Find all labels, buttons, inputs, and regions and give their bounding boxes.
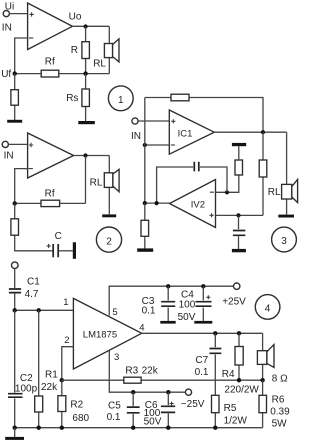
- svg-text:2: 2: [106, 236, 112, 247]
- resistor Rs: [82, 89, 90, 107]
- wire R4 branch: [238, 333, 240, 380]
- svg-text:R: R: [71, 45, 78, 56]
- wire input to op-amp: [9, 13, 27, 15]
- wire output to divider resistor: [262, 132, 264, 215]
- node R4 junction: [237, 331, 241, 335]
- resistor R4: [235, 347, 243, 366]
- svg-text:RL: RL: [93, 59, 106, 70]
- speaker RL: [104, 39, 119, 62]
- svg-text:4: 4: [265, 304, 271, 315]
- wire output: [74, 155, 110, 157]
- svg-text:100p: 100p: [15, 383, 38, 394]
- node C5 junction: [131, 390, 135, 394]
- wire inverting input: [145, 144, 170, 146]
- svg-text:IN: IN: [2, 23, 12, 34]
- node C4 junction: [201, 284, 205, 288]
- svg-text:4: 4: [139, 323, 144, 334]
- node C7 junction: [213, 331, 217, 335]
- ground (lower-left): [137, 248, 153, 251]
- op-amp A1: [28, 3, 73, 50]
- node IV2 inverting junction: [225, 190, 229, 194]
- svg-text:IN: IN: [131, 131, 141, 142]
- ground (main): [5, 437, 24, 440]
- node inverting junction: [143, 143, 147, 147]
- wire Uf feedback line: [15, 73, 110, 75]
- node Uf junction: [13, 71, 17, 75]
- svg-text:R1: R1: [45, 370, 58, 381]
- svg-text:R6: R6: [272, 395, 285, 406]
- terminal -25V: [185, 389, 191, 395]
- node rail-C6 junction: [166, 426, 170, 430]
- wire C7-R5 branch: [214, 333, 216, 395]
- node rail-C2 junction: [13, 426, 17, 430]
- svg-text:5W: 5W: [272, 419, 288, 430]
- wire R branch: [85, 27, 87, 74]
- svg-text:0.1: 0.1: [195, 367, 209, 378]
- node C2 junction: [13, 308, 17, 312]
- svg-text:50V: 50V: [178, 312, 196, 323]
- wire inverting input: [15, 169, 28, 204]
- resistor R5: [212, 395, 220, 412]
- ground (under C4): [194, 321, 212, 324]
- terminal Ui input: [3, 11, 9, 17]
- terminal IN input: [2, 141, 8, 147]
- svg-text:R3: R3: [125, 366, 138, 377]
- svg-text:R5: R5: [224, 403, 237, 414]
- circuit number 2: [96, 227, 121, 252]
- svg-text:IC1: IC1: [178, 129, 193, 140]
- wire ground stub: [14, 428, 16, 437]
- resistor (output divider): [259, 160, 267, 177]
- ground (under C3): [160, 321, 175, 324]
- resistor R: [82, 42, 90, 59]
- terminal +25V: [234, 283, 240, 289]
- ground (under speaker): [102, 214, 116, 217]
- svg-text:100: 100: [179, 300, 196, 311]
- wire IV2 output to left vertical: [145, 202, 170, 204]
- resistor (top feedback): [171, 94, 189, 101]
- op-amp IC1: [169, 110, 214, 154]
- node R-Rs junction: [83, 71, 87, 75]
- wire resistor to ground bar: [238, 146, 240, 160]
- wire to lower-left resistor: [144, 203, 146, 248]
- node output junction: [83, 153, 87, 157]
- node inverting junction: [13, 201, 17, 205]
- svg-text:IV2: IV2: [191, 200, 205, 211]
- svg-text:−25V: −25V: [181, 399, 205, 410]
- svg-text:C: C: [55, 231, 62, 242]
- svg-text:1/2W: 1/2W: [224, 415, 248, 426]
- speaker RL: [104, 169, 119, 191]
- wire input to IC1: [138, 120, 169, 122]
- resistor R2: [58, 396, 66, 412]
- svg-text:C1: C1: [27, 276, 40, 287]
- wire input to op-amp: [8, 143, 27, 145]
- op-amp U1 LM1875: [73, 298, 141, 369]
- node R1 junction: [37, 308, 41, 312]
- svg-text:8 Ω: 8 Ω: [272, 374, 288, 385]
- wire input node line: [15, 309, 74, 311]
- svg-text:2: 2: [64, 335, 69, 346]
- capacitor C7: [208, 347, 222, 354]
- svg-text:4.7: 4.7: [25, 289, 39, 300]
- svg-text:RL: RL: [90, 178, 103, 189]
- svg-text:5: 5: [112, 307, 117, 318]
- svg-text:0.39: 0.39: [270, 407, 290, 418]
- node speaker-R6 junction: [260, 378, 264, 382]
- wire output: [72, 25, 109, 27]
- op-amp A2: [28, 133, 74, 178]
- svg-text:LM1875: LM1875: [83, 329, 117, 340]
- svg-text:3: 3: [114, 352, 119, 363]
- circuit number 1: [108, 86, 133, 111]
- node pin2-R2-R3 junction: [60, 378, 64, 382]
- resistor R3: [124, 377, 141, 383]
- capacitor C5: [126, 406, 141, 414]
- wire feedback line R3: [62, 379, 263, 381]
- capacitor C4 (electrolytic): [195, 295, 213, 307]
- svg-text:+25V: +25V: [222, 297, 246, 308]
- ground (above resistor): [232, 143, 246, 146]
- node R4 bottom junction: [237, 378, 241, 382]
- node C6 junction: [166, 390, 170, 394]
- wire C3 branch: [167, 286, 169, 321]
- resistor Rf: [41, 70, 59, 77]
- node Uo junction: [84, 24, 88, 28]
- wire C4 branch: [202, 286, 204, 321]
- svg-text:R4: R4: [222, 369, 235, 380]
- svg-text:Rs: Rs: [66, 93, 78, 104]
- resistor (lower-left to ground): [141, 220, 149, 236]
- svg-text:Uf: Uf: [1, 69, 11, 80]
- ground (under capacitor): [232, 249, 246, 252]
- wire input to C1: [14, 269, 16, 311]
- wire lower resistor branch: [15, 203, 54, 250]
- svg-text:0.1: 0.1: [142, 305, 156, 316]
- svg-text:0.1: 0.1: [107, 412, 121, 423]
- wire IV2 inverting input: [216, 175, 239, 192]
- capacitor C2: [7, 393, 23, 399]
- capacitor (feedback): [193, 162, 200, 172]
- wire inverting input: [15, 38, 28, 74]
- terminal input: [12, 262, 19, 269]
- resistor R1: [35, 396, 43, 412]
- node rail-R2 junction: [60, 426, 64, 430]
- wire C2 branch: [14, 310, 16, 427]
- svg-text:IN: IN: [4, 151, 14, 162]
- svg-text:680: 680: [72, 413, 89, 424]
- svg-text:C5: C5: [108, 401, 121, 412]
- resistor (IV2 inverting to ground): [235, 160, 243, 175]
- wire IC1 output: [214, 131, 286, 133]
- capacitor (IV2 noninverting to ground): [232, 229, 245, 236]
- wire pin 3 to -rail: [109, 351, 185, 393]
- ground (right of C, vertical bar): [73, 242, 76, 258]
- capacitor C3: [160, 300, 176, 307]
- node output junction: [261, 130, 265, 134]
- wire speaker branch: [108, 156, 110, 215]
- svg-text:22k: 22k: [41, 382, 58, 393]
- wire capacitor to ground: [58, 250, 73, 252]
- ground (under speaker): [278, 215, 294, 218]
- circuit number 4: [255, 295, 280, 320]
- svg-text:1: 1: [63, 297, 68, 308]
- wire R2 branch: [61, 380, 63, 428]
- wire bottom ground rail: [15, 427, 263, 429]
- svg-text:Uo: Uo: [69, 12, 82, 23]
- terminal IN input: [132, 118, 138, 124]
- wire output pin 4: [142, 332, 263, 334]
- svg-text:220/2W: 220/2W: [224, 384, 259, 395]
- wire R6 branch: [262, 380, 264, 428]
- op-amp IV2: [170, 180, 216, 228]
- svg-text:Rf: Rf: [45, 57, 55, 68]
- circuit number 3: [272, 227, 297, 252]
- node rail-C5 junction: [131, 426, 135, 430]
- node IV2 output junction: [143, 201, 147, 205]
- wire C6 branch: [167, 392, 169, 428]
- resistor R6: [259, 395, 267, 412]
- wire pin 5 to +rail: [109, 286, 233, 315]
- svg-text:22k: 22k: [142, 366, 159, 377]
- wire feedback down: [85, 156, 87, 204]
- wire speaker branch: [286, 132, 288, 214]
- node noninverting junction: [236, 213, 240, 217]
- wire pin 2: [62, 347, 74, 381]
- capacitor C1: [8, 288, 22, 294]
- capacitor C: [47, 244, 59, 257]
- wire left feedback vertical: [144, 98, 146, 204]
- node rail-R5 junction: [213, 426, 217, 430]
- wire speaker branch: [262, 333, 264, 380]
- wire R1 branch: [38, 310, 40, 427]
- resistor (lower, unlabeled): [11, 219, 19, 235]
- svg-text:C7: C7: [195, 355, 208, 366]
- wire C5 branch: [132, 392, 134, 428]
- svg-text:R2: R2: [70, 400, 83, 411]
- node capacitor branch junction: [155, 201, 159, 205]
- wire R5 lower branch: [214, 413, 216, 428]
- svg-text:50V: 50V: [144, 416, 162, 427]
- wire Rs branch: [85, 74, 87, 122]
- svg-text:RL: RL: [268, 187, 281, 198]
- wire speaker branch: [108, 27, 110, 74]
- node C3 junction: [166, 284, 170, 288]
- ground (left): [7, 120, 22, 123]
- speaker RL: [282, 179, 298, 202]
- speaker (8 ohm): [257, 345, 274, 368]
- wire to bypass capacitor: [238, 215, 240, 249]
- wire left resistor branch: [14, 74, 16, 120]
- svg-text:1: 1: [118, 95, 124, 106]
- wire Rf line: [15, 202, 86, 204]
- wire IV2 noninverting line: [216, 214, 264, 216]
- svg-text:Rf: Rf: [45, 189, 55, 200]
- resistor Rf: [41, 200, 60, 206]
- node rail-R1 junction: [37, 426, 41, 430]
- wire top feedback line: [145, 98, 263, 133]
- resistor (left, unlabeled): [11, 90, 19, 106]
- ground (under Rs): [78, 121, 95, 124]
- capacitor C6 (electrolytic): [160, 402, 176, 414]
- svg-text:3: 3: [281, 236, 287, 247]
- wire capacitor feedback loop: [157, 167, 227, 203]
